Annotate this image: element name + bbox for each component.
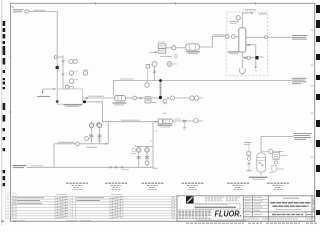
inline filter (145, 97, 151, 104)
title block 6 (267, 183, 289, 189)
bottom row texts (245, 218, 313, 220)
main header wire y80.5 (114, 81, 292, 96)
valve (183, 120, 186, 122)
letdown drop wire (103, 102, 159, 122)
line label (58, 141, 74, 143)
header outlet label (292, 78, 307, 83)
tag text (160, 56, 172, 58)
drain circle (174, 54, 177, 57)
zone tick left (9, 56, 11, 58)
junction dot (83, 100, 86, 103)
right col row ticks (173, 198, 175, 218)
junction dot (159, 79, 162, 82)
vessel V1 horizontal (115, 96, 126, 102)
instrument circle (70, 93, 74, 97)
drain (184, 122, 186, 127)
feed wire into column (235, 36, 239, 38)
label block (294, 134, 312, 140)
margin corner dash (1, 221, 4, 223)
fluor logo square (186, 196, 194, 203)
inlet arrow (150, 51, 157, 53)
revision rows text (17, 198, 44, 204)
riser wire (53, 144, 55, 168)
electric coil element (159, 81, 161, 98)
instrument circle TI (152, 62, 157, 67)
drain label (37, 96, 50, 98)
wire (173, 120, 203, 122)
letdown header wire (54, 143, 108, 145)
left film sprocket marks (3, 21, 6, 186)
vessel V3 (257, 153, 266, 172)
E2 top tag (163, 112, 167, 114)
valve (140, 97, 142, 99)
right film sprocket marks (316, 5, 320, 215)
valve (62, 61, 65, 63)
fluor daniel line (195, 206, 236, 208)
small square (146, 65, 149, 68)
right margin tiny texts (311, 30, 314, 157)
instrument circle (69, 71, 73, 75)
title line 3 faint (276, 209, 302, 211)
title block 2 (105, 183, 127, 189)
valve (86, 97, 88, 99)
valve (62, 74, 65, 76)
branch wire (107, 122, 109, 144)
E2 label (158, 124, 173, 126)
instrument circle (83, 71, 87, 75)
instrument below header (145, 83, 149, 87)
footer texts inside margin (15, 220, 92, 222)
revision rows text (77, 198, 105, 201)
title block 5 (227, 183, 249, 189)
rev col marks (13, 198, 15, 204)
column C1 (239, 28, 246, 52)
inline circle (265, 36, 268, 39)
title block 4 (182, 183, 204, 189)
tag bar (86, 146, 97, 148)
revision table left (11, 196, 69, 218)
valve under TI (153, 67, 156, 81)
title block 1 (66, 183, 88, 189)
duplex filter tag (158, 41, 166, 43)
column C1 tag (228, 51, 240, 53)
company name box (195, 203, 240, 209)
marks (132, 149, 135, 152)
instrument circle pair PI/PT (69, 59, 73, 63)
wire (62, 56, 64, 94)
equipment E2 (158, 119, 162, 124)
small box (66, 86, 69, 89)
wire (126, 97, 134, 99)
instrument circle (76, 142, 80, 146)
zone tick top (255, 2, 257, 5)
outlet label block (292, 36, 308, 40)
diagonal marks (110, 197, 122, 219)
gauge wire (261, 151, 268, 153)
revision table right (70, 196, 177, 218)
reboiler loop (246, 44, 256, 46)
left valve stack (248, 142, 250, 171)
equipment titles row (66, 183, 289, 189)
overhead product wire (246, 36, 292, 38)
valves on bottom line (110, 166, 112, 168)
svg-text:FLUOR.: FLUOR. (215, 209, 242, 219)
tag text (174, 118, 181, 120)
bottom strip text (196, 219, 246, 221)
zone tick top (95, 2, 97, 5)
junction dot (55, 66, 59, 70)
zone tick top (175, 2, 177, 5)
letdown pair 2 header (135, 146, 154, 148)
small cell texts (245, 198, 264, 215)
instrument circle pair (190, 96, 194, 100)
wire from source label (29, 12, 57, 102)
title block 3 (142, 183, 164, 189)
exchanger E1 label (186, 51, 200, 53)
circle (247, 56, 250, 59)
instrument circle (194, 119, 198, 123)
bottom feed wire (27, 166, 154, 168)
header marks above tables (56, 194, 122, 196)
diagonal marks (55, 197, 67, 219)
instrument circle (69, 86, 73, 90)
overhead label (245, 9, 256, 11)
control valve B (97, 122, 102, 144)
feed label block (13, 165, 26, 167)
psv label (230, 21, 239, 23)
wire up to column (199, 36, 227, 47)
bottoms wire (242, 57, 255, 59)
heater box E0 (57, 89, 82, 104)
zone numeral mark (12, 6, 14, 8)
right filter (273, 152, 280, 159)
source label top-left (13, 10, 45, 13)
valve (248, 44, 250, 46)
instrument circle (167, 62, 172, 67)
valve (167, 97, 169, 99)
column bottom stem (241, 52, 243, 58)
instrument circle (171, 96, 175, 100)
feed instruments (225, 35, 229, 39)
wire (172, 63, 178, 65)
wire (151, 97, 161, 99)
line label (214, 34, 227, 36)
instrument circle (97, 123, 101, 127)
title block (177, 196, 315, 222)
control valve D (145, 147, 150, 168)
wire (273, 151, 281, 153)
wire (176, 47, 186, 49)
zone tick left (9, 111, 11, 113)
line label (120, 78, 134, 80)
package dashed box (227, 12, 267, 76)
feed arrow wire (43, 89, 56, 94)
V3 label (249, 176, 268, 178)
wire reboiler line (83, 101, 103, 103)
overhead wire (242, 13, 252, 28)
pump P1 (172, 46, 176, 50)
line label (121, 119, 140, 121)
control valve A (89, 122, 94, 144)
duplex filter F1 (158, 44, 166, 49)
drop wire (153, 122, 158, 169)
paper left edge (1, 0, 3, 226)
line number label (88, 95, 104, 97)
wire (166, 47, 172, 49)
drawing title lines (271, 198, 311, 206)
notes paragraph (179, 210, 213, 218)
junction dot (159, 96, 162, 99)
title block inner rows (243, 199, 268, 208)
instrument on line (163, 99, 167, 103)
drawing number (272, 214, 303, 216)
arrowhead (105, 143, 108, 145)
valve (244, 57, 246, 59)
equipment label E-heater (64, 104, 83, 106)
wire L (261, 137, 294, 153)
tag text (58, 56, 63, 58)
sideways text right column (312, 198, 314, 211)
instrument circle (236, 16, 240, 20)
instrument circle (54, 56, 57, 59)
pump branch wire (255, 45, 257, 68)
microfilm footer texts (186, 222, 318, 224)
small marks (85, 137, 89, 141)
wire branch (83, 97, 114, 99)
exchanger E1 (186, 44, 200, 50)
company text lines (196, 197, 240, 204)
vessel V1 label (113, 102, 127, 104)
control valve C (136, 147, 141, 168)
wire (175, 97, 204, 99)
instrument circle (269, 150, 273, 154)
junction (56, 100, 59, 103)
instrument circle (69, 79, 73, 83)
pump black (255, 56, 258, 59)
pump circle (133, 96, 137, 100)
seal pot drain (241, 59, 243, 68)
wire (137, 97, 145, 99)
margin corner dash (13, 221, 16, 223)
left margin mini revision grid (6, 193, 17, 218)
